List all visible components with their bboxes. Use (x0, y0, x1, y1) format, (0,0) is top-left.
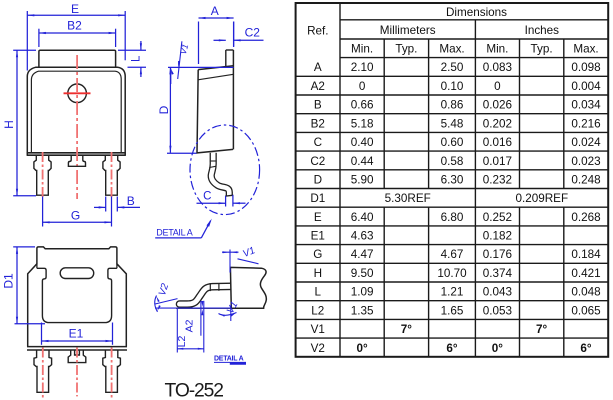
svg-text:B: B (127, 194, 135, 208)
svg-text:G: G (313, 248, 322, 261)
svg-text:L2: L2 (311, 304, 324, 317)
svg-text:DETAIL A: DETAIL A (156, 227, 192, 237)
side view: body outline (197, 66, 233, 153)
dimension B2 (39, 32, 116, 34)
svg-text:4.67: 4.67 (441, 248, 464, 261)
side view: tab left edge (225, 50, 227, 67)
svg-text:2.50: 2.50 (441, 61, 464, 74)
svg-text:0.216: 0.216 (571, 117, 600, 130)
back view: right lead (103, 350, 121, 392)
side view: body right edge (232, 50, 234, 149)
svg-text:0.248: 0.248 (571, 173, 600, 186)
dimension D (169, 67, 171, 152)
angle V1 annotation top-left (178, 41, 182, 79)
svg-text:0.016: 0.016 (483, 136, 512, 149)
svg-text:Millimeters: Millimeters (380, 24, 436, 37)
table grid (296, 3, 609, 357)
svg-text:V1: V1 (241, 245, 256, 260)
svg-text:H: H (2, 120, 16, 129)
svg-text:2.10: 2.10 (351, 61, 374, 74)
svg-text:V1: V1 (178, 43, 190, 56)
svg-text:6.40: 6.40 (351, 211, 374, 224)
svg-text:0: 0 (359, 80, 366, 93)
detail view: seating plane line (155, 307, 231, 309)
svg-text:6.80: 6.80 (441, 211, 464, 224)
svg-text:C: C (203, 190, 211, 202)
svg-text:5.30REF: 5.30REF (385, 192, 431, 205)
back view: center stub lead (68, 350, 86, 363)
svg-text:0.024: 0.024 (571, 136, 601, 149)
svg-text:0.421: 0.421 (571, 267, 600, 280)
dimension D1 (13, 246, 35, 248)
svg-text:E1: E1 (69, 327, 84, 341)
svg-text:0.10: 0.10 (441, 80, 464, 93)
dimension C2 (214, 39, 226, 41)
svg-text:Min.: Min. (486, 43, 508, 56)
front view: body bottom double line (27, 152, 126, 154)
dimension G bottom (42, 197, 44, 227)
svg-text:1.09: 1.09 (351, 286, 374, 299)
front view: body outline (27, 67, 125, 155)
detail view: lead strip with bend and foot (180, 286, 234, 304)
svg-text:Max.: Max. (439, 43, 464, 56)
side view: lead foot cut edge (225, 195, 233, 196)
svg-text:D1: D1 (310, 192, 325, 205)
dimension A2 detail view (200, 301, 202, 336)
svg-text:Typ.: Typ. (395, 43, 417, 56)
svg-text:0.053: 0.053 (483, 304, 512, 317)
svg-text:0.58: 0.58 (441, 155, 464, 168)
svg-text:Ref.: Ref. (307, 25, 328, 38)
svg-text:D: D (157, 105, 171, 114)
svg-text:0.065: 0.065 (571, 304, 601, 317)
dimension H left side (13, 49, 36, 51)
svg-text:A2: A2 (311, 80, 325, 93)
front view: center stub lead (68, 155, 85, 166)
svg-text:TO-252: TO-252 (165, 381, 224, 400)
dimension C (225, 196, 227, 207)
svg-text:0°: 0° (357, 342, 369, 355)
front view: red vertical center line (76, 55, 78, 199)
svg-text:E: E (71, 2, 79, 16)
svg-text:9.50: 9.50 (351, 267, 374, 280)
svg-text:A2: A2 (183, 319, 195, 332)
front view: right lead red center line (111, 152, 113, 199)
svg-text:4.63: 4.63 (351, 230, 374, 243)
detail view: angle V2 with arc (155, 299, 178, 305)
side view: lead bend tick marks (210, 160, 217, 162)
dimension L right side (118, 49, 146, 51)
back view: left lead red center line (42, 348, 44, 399)
front view: left lead red center line (42, 152, 44, 199)
svg-text:E1: E1 (311, 230, 325, 243)
svg-text:0.202: 0.202 (483, 117, 512, 130)
dimension L2 detail view (176, 309, 178, 353)
back view: tab edge continuations (36, 264, 38, 269)
svg-text:0.252: 0.252 (483, 211, 512, 224)
front view: left lead (34, 155, 51, 195)
svg-text:0.083: 0.083 (483, 61, 512, 74)
svg-text:0.86: 0.86 (441, 99, 464, 112)
svg-text:10.70: 10.70 (437, 267, 467, 280)
svg-text:0.017: 0.017 (483, 155, 512, 168)
detail view: angle V1 bottom dimension (230, 305, 232, 321)
front view: mounting hole circle (68, 84, 87, 103)
svg-text:V2: V2 (157, 282, 171, 297)
svg-text:0.004: 0.004 (571, 80, 601, 93)
detail view: angle V1 top dimension (229, 250, 231, 273)
svg-text:B: B (314, 99, 322, 112)
svg-text:0.182: 0.182 (483, 230, 512, 243)
svg-text:0: 0 (494, 80, 501, 93)
svg-text:L: L (130, 55, 142, 62)
svg-text:1.35: 1.35 (351, 304, 374, 317)
back view: right lead red center line (111, 348, 113, 399)
svg-text:H: H (314, 267, 322, 280)
back view: slot pill near top (60, 268, 93, 279)
front view: right lead (103, 155, 120, 195)
front view: body inner outline (31, 71, 121, 152)
side view: tab top edge (226, 49, 234, 51)
svg-text:0.023: 0.023 (571, 155, 600, 168)
back view: bottom double line (27, 346, 127, 348)
svg-text:5.90: 5.90 (351, 173, 374, 186)
detail view: lead bend tick marks (209, 283, 211, 291)
back view: outer outline (28, 247, 127, 347)
svg-text:0.043: 0.043 (483, 286, 512, 299)
svg-text:Dimensions: Dimensions (446, 6, 507, 19)
dimension E1 (41, 323, 43, 345)
svg-text:0.026: 0.026 (483, 99, 512, 112)
svg-text:0°: 0° (492, 342, 504, 355)
svg-text:Inches: Inches (525, 24, 560, 37)
svg-text:0.66: 0.66 (351, 99, 374, 112)
svg-text:0.209REF: 0.209REF (515, 192, 568, 205)
svg-text:0.098: 0.098 (571, 61, 600, 74)
svg-text:B2: B2 (67, 19, 82, 33)
dimension B (105, 197, 107, 212)
svg-text:L2: L2 (176, 336, 188, 348)
svg-text:5.48: 5.48 (441, 117, 464, 130)
svg-text:6°: 6° (580, 342, 592, 355)
front view: heatsink tab outline (39, 50, 116, 67)
side view: body parting line (198, 74, 234, 80)
svg-text:0.374: 0.374 (483, 267, 513, 280)
detail view: body with break line (230, 267, 266, 308)
svg-text:E: E (314, 211, 322, 224)
svg-text:0.40: 0.40 (351, 136, 374, 149)
svg-text:Typ.: Typ. (531, 43, 553, 56)
svg-text:5.18: 5.18 (351, 117, 374, 130)
svg-text:0.176: 0.176 (483, 248, 512, 261)
detail A ellipse (190, 125, 260, 215)
svg-text:C2: C2 (245, 26, 261, 40)
svg-text:D: D (314, 173, 322, 186)
back view: center red center line (76, 348, 78, 397)
dimension E top (27, 14, 125, 16)
side view: top extension line (168, 66, 234, 68)
svg-text:7°: 7° (536, 323, 548, 336)
back view: notches and inner cavity outline (37, 268, 117, 322)
svg-text:0.232: 0.232 (483, 173, 512, 186)
svg-text:Min.: Min. (351, 43, 373, 56)
svg-text:0.034: 0.034 (571, 99, 601, 112)
side view: lead S-bend (211, 153, 229, 196)
svg-text:B2: B2 (311, 117, 325, 130)
svg-text:C2: C2 (310, 155, 325, 168)
back view: left lead (34, 350, 52, 392)
svg-text:6°: 6° (446, 342, 458, 355)
svg-text:0.60: 0.60 (441, 136, 464, 149)
svg-text:V2: V2 (311, 342, 325, 355)
svg-text:0.048: 0.048 (571, 286, 600, 299)
svg-text:DETAIL A: DETAIL A (214, 356, 244, 363)
svg-text:7°: 7° (401, 323, 413, 336)
svg-text:V1: V1 (311, 323, 325, 336)
svg-text:0.268: 0.268 (571, 211, 600, 224)
front view: red horizontal center line through hole (64, 92, 91, 94)
svg-text:1.65: 1.65 (441, 304, 464, 317)
svg-text:G: G (71, 209, 80, 223)
svg-text:0.44: 0.44 (351, 155, 374, 168)
svg-text:A: A (211, 4, 219, 18)
svg-text:1.21: 1.21 (441, 286, 464, 299)
svg-text:A: A (314, 61, 322, 74)
svg-text:Max.: Max. (573, 43, 598, 56)
detail view: foot bottom line to body (176, 307, 231, 309)
svg-text:D1: D1 (2, 273, 16, 289)
svg-text:4.47: 4.47 (351, 248, 374, 261)
svg-text:C: C (314, 136, 322, 149)
svg-text:0.184: 0.184 (571, 248, 601, 261)
svg-text:L: L (315, 286, 322, 299)
dimension A (198, 22, 200, 65)
svg-text:6.30: 6.30 (441, 173, 464, 186)
